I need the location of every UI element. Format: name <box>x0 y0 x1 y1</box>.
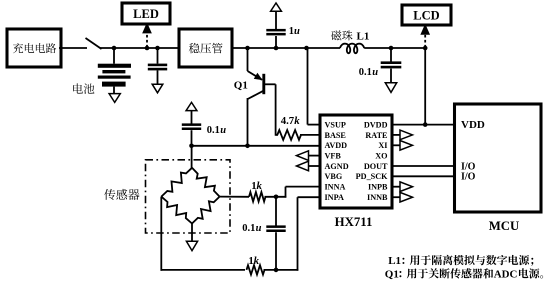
svg-text:k: k <box>257 180 263 192</box>
pin arrow INPB (right) <box>391 186 401 188</box>
wire PD_SCK to MCU <box>391 175 456 177</box>
svg-text:VDD: VDD <box>461 119 485 131</box>
svg-text:HX711: HX711 <box>335 215 373 229</box>
bridge resistor bottom-right <box>192 197 220 224</box>
pin arrow RATE (right) <box>391 134 401 136</box>
capacitor C3 0.1u <box>191 110 193 124</box>
wire bridge left node down <box>160 197 162 271</box>
inductor L1 ferrite bead <box>340 44 364 54</box>
bridge resistor top-left <box>161 168 192 197</box>
box LCD <box>402 5 451 25</box>
wire AVDD to bridge top <box>191 146 193 169</box>
svg-text:INNB: INNB <box>367 193 388 202</box>
label 传感器 <box>104 189 139 200</box>
svg-text:XI: XI <box>378 141 387 150</box>
node C4 bottom junction <box>274 268 279 273</box>
svg-text:u: u <box>256 223 262 234</box>
svg-text:DOUT: DOUT <box>364 162 388 171</box>
wire R1 to BASE pin <box>276 134 278 136</box>
svg-text:INPB: INPB <box>368 183 388 192</box>
label 充电电路 <box>13 43 56 53</box>
node C3 junction <box>189 144 194 149</box>
box U3 regulator 稳压管 <box>179 29 232 67</box>
resistor R3 1k <box>247 265 265 274</box>
wire regulator to bead <box>231 47 341 49</box>
wire switch to regulator <box>100 47 181 49</box>
svg-text:AVDD: AVDD <box>325 141 348 150</box>
capacitor C2 1u <box>275 36 277 47</box>
svg-text:4.7: 4.7 <box>281 115 295 127</box>
bridge resistor bottom-left <box>161 197 192 224</box>
wire R2 to INNA <box>265 196 287 198</box>
wire DVDD to MCU VDD <box>391 124 456 126</box>
svg-text:PD_SCK: PD_SCK <box>356 172 388 181</box>
svg-text:u: u <box>220 125 226 136</box>
IC U1 HX711 box <box>320 115 392 208</box>
node LED junction <box>145 46 150 51</box>
node DVDD junction <box>423 122 428 127</box>
svg-text:0.1: 0.1 <box>359 67 372 78</box>
wire R3 to INPA <box>264 269 299 271</box>
svg-text:Q1: Q1 <box>385 269 399 281</box>
svg-text:LCD: LCD <box>413 9 439 23</box>
ground below C5 <box>385 83 396 93</box>
wire dashed LED indicator arrow <box>146 32 148 48</box>
ground below bridge <box>186 241 197 250</box>
svg-text:k: k <box>294 115 300 127</box>
svg-text:RATE: RATE <box>365 131 388 140</box>
wire Q1 base <box>264 83 276 85</box>
svg-text:BASE: BASE <box>325 131 347 140</box>
svg-text:u: u <box>294 26 300 37</box>
label 磁珠 L1 <box>331 30 352 40</box>
svg-text:DVDD: DVDD <box>364 121 388 130</box>
node C1 junction <box>155 46 160 51</box>
wire bead to corner <box>364 47 426 49</box>
node battery junction <box>112 46 117 51</box>
node Q1 collector junction <box>245 144 250 149</box>
wire dashed LCD arrow <box>424 33 426 48</box>
wire digital supply drop <box>424 47 426 124</box>
svg-text:LED: LED <box>133 7 159 21</box>
svg-text:u: u <box>372 67 378 78</box>
wire VSUP drop <box>307 47 309 124</box>
node C4 top junction <box>274 195 279 200</box>
box LED <box>122 3 170 24</box>
node C2 junction <box>274 46 279 51</box>
svg-text:k: k <box>254 255 260 267</box>
IC U4 MCU box <box>455 104 542 212</box>
svg-text:INPA: INPA <box>325 193 344 202</box>
svg-text:ADC: ADC <box>494 269 518 281</box>
node Q1 emitter junction <box>245 46 250 51</box>
switch S1 blade (open) <box>86 38 102 49</box>
svg-text:MCU: MCU <box>489 219 520 233</box>
pin arrow VFB (left) <box>309 155 321 157</box>
transistor Q1 base bar <box>262 74 265 94</box>
wire bridge bottom to ground <box>191 224 193 242</box>
svg-text:0.1: 0.1 <box>207 125 220 136</box>
svg-text:0.1: 0.1 <box>242 223 255 234</box>
svg-text:L1: L1 <box>388 255 401 267</box>
pin arrow XI (right) <box>391 144 401 146</box>
svg-text:VSUP: VSUP <box>325 121 346 130</box>
capacitor C5 0.1u <box>390 47 392 62</box>
svg-text:AGND: AGND <box>325 162 349 171</box>
transistor Q1 collector <box>248 91 264 99</box>
label 电池 <box>73 83 94 94</box>
battery BT1 <box>113 47 115 64</box>
power arrow above C2 <box>271 3 282 11</box>
box U2 charger 充电电路 <box>7 29 61 67</box>
pin arrow INNB (right) <box>391 196 401 198</box>
wire charger output <box>59 47 87 49</box>
resistor R2 1k <box>249 192 266 201</box>
ground below C1 <box>152 84 163 93</box>
svg-text:VBG: VBG <box>325 172 343 181</box>
node VSUP junction <box>304 46 309 51</box>
ground below battery <box>109 94 120 103</box>
wire bridge right to R2 <box>220 196 249 198</box>
svg-text:INNA: INNA <box>325 183 346 192</box>
bridge resistor top-right <box>192 168 220 197</box>
wire bottom to R3 <box>161 269 246 271</box>
capacitor C1 <box>157 47 159 64</box>
wire AVDD net <box>192 145 322 147</box>
node C5 junction <box>389 46 394 51</box>
resistor R1 4.7k <box>277 130 301 140</box>
svg-text:L1: L1 <box>357 31 370 43</box>
label 稳压管 <box>189 43 223 54</box>
pin arrow AGND (left) <box>309 165 321 167</box>
svg-text:XO: XO <box>375 152 387 161</box>
power arrow above C3 <box>186 102 197 110</box>
svg-text:Q1: Q1 <box>234 80 248 92</box>
wire DOUT to MCU <box>391 165 456 167</box>
svg-text:VFB: VFB <box>325 152 342 161</box>
svg-text:I/O: I/O <box>461 172 476 183</box>
node LCD corner junction <box>423 46 428 51</box>
capacitor C4 0.1u <box>275 196 277 226</box>
transistor Q1 emitter <box>247 47 249 71</box>
box sensor 传感器 (dashed) <box>146 160 231 233</box>
